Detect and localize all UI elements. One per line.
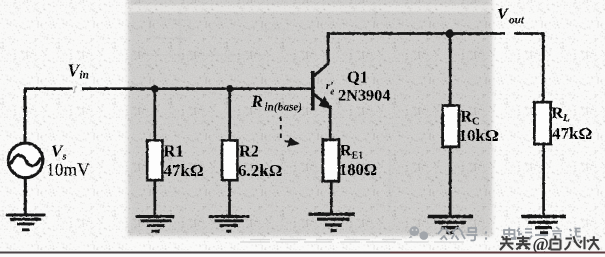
scanned gray band background	[128, 0, 492, 236]
svg-text:R: R	[340, 143, 352, 160]
resistor RC	[443, 106, 459, 147]
svg-text:6.2kΩ: 6.2kΩ	[238, 161, 282, 180]
svg-text:@: @	[533, 234, 549, 254]
wire: R1 vertical lower	[153, 180, 156, 216]
svg-text:V: V	[497, 6, 509, 23]
ground (source)	[6, 215, 45, 230]
wire: RC vertical lower	[449, 147, 452, 215]
wire: input line Vin left segment	[25, 87, 73, 90]
svg-text:L: L	[562, 113, 569, 124]
transistor Q1	[313, 63, 331, 110]
faint tiny text row	[240, 240, 464, 243]
svg-text:R: R	[552, 105, 564, 122]
svg-text:R: R	[251, 92, 263, 111]
wire: RE1 to ground	[330, 181, 333, 213]
svg-text:in(base): in(base)	[265, 101, 303, 113]
wire: input line to base	[82, 87, 311, 90]
bottom rule	[0, 252, 605, 254]
node junction dot R1	[151, 85, 158, 92]
resistor R1	[147, 140, 162, 180]
resistor RE1	[323, 140, 339, 181]
watermark text gongzhonghao (simplified strokes)	[438, 227, 581, 241]
wire: emitter vertical to RE1	[329, 106, 332, 140]
svg-text:e: e	[330, 87, 334, 97]
wire: R1 vertical upper	[153, 89, 156, 141]
watermark wechat icon	[409, 226, 428, 240]
wire: source vertical upper	[24, 87, 27, 142]
wire: collector up + top rail left	[328, 34, 505, 64]
watermark toutiao text (simplified strokes, dark with halo)	[500, 236, 599, 251]
svg-text:47kΩ: 47kΩ	[164, 161, 204, 180]
ground (RC)	[428, 217, 474, 233]
svg-text:10mV: 10mV	[46, 160, 90, 180]
svg-text:R2: R2	[239, 142, 259, 161]
source Vs circle	[8, 143, 43, 178]
ground (R1)	[136, 217, 175, 232]
svg-text:in: in	[80, 70, 89, 82]
dashed arrow from Rin(base)	[281, 117, 300, 147]
node junction dot RC/top rail	[445, 30, 453, 38]
wire: source vertical lower	[24, 178, 27, 214]
source sine symbol	[12, 155, 41, 165]
ground (RL)	[522, 217, 567, 233]
wire: top rail right + RL drop	[514, 34, 543, 103]
gray band noise texture	[128, 0, 492, 236]
resistor RL	[534, 102, 550, 144]
resistor R2	[222, 140, 237, 180]
ground (R2)	[209, 217, 250, 232]
wire: R2 vertical lower	[228, 180, 231, 216]
svg-text:180Ω: 180Ω	[339, 160, 377, 179]
svg-text:2N3904: 2N3904	[338, 86, 390, 105]
svg-text:out: out	[509, 15, 525, 27]
svg-text:R: R	[461, 109, 473, 126]
wire: R2 vertical upper	[228, 89, 231, 141]
ground (RE1)	[309, 214, 356, 230]
wire: RC vertical upper	[449, 34, 452, 106]
node junction dot R2	[226, 85, 233, 92]
svg-text:Q1: Q1	[347, 68, 368, 87]
svg-text:R1: R1	[164, 142, 184, 161]
wire: RL vertical lower	[542, 144, 545, 215]
svg-text:10kΩ: 10kΩ	[459, 126, 499, 145]
faint ghost lines in band	[132, 4, 420, 210]
squiggle in Vin gap	[73, 86, 77, 93]
svg-text:47kΩ: 47kΩ	[552, 124, 592, 143]
